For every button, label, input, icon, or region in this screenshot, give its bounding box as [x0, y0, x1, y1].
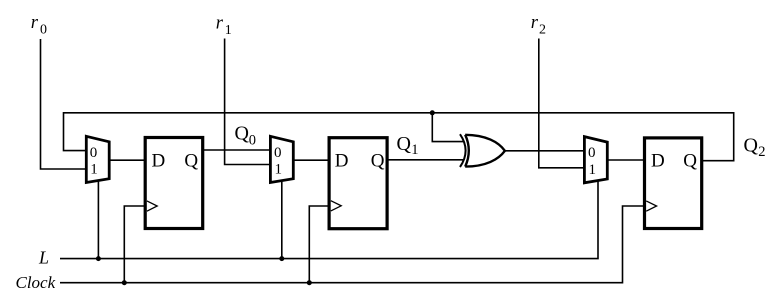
svg-text:1: 1 — [225, 23, 232, 38]
svg-text:D: D — [651, 150, 665, 171]
svg-text:Q: Q — [184, 150, 198, 171]
svg-text:r: r — [31, 13, 39, 33]
svg-text:0: 0 — [40, 22, 47, 37]
svg-text:0: 0 — [588, 145, 596, 161]
svg-text:Q: Q — [371, 150, 385, 171]
svg-text:Q: Q — [683, 150, 697, 171]
svg-text:Q: Q — [397, 133, 412, 155]
svg-text:r: r — [531, 13, 539, 33]
svg-text:0: 0 — [274, 145, 282, 161]
svg-text:1: 1 — [589, 162, 597, 178]
svg-text:D: D — [152, 150, 166, 171]
svg-text:1: 1 — [411, 142, 418, 158]
svg-text:1: 1 — [275, 162, 283, 178]
svg-text:2: 2 — [758, 144, 765, 160]
svg-text:2: 2 — [539, 22, 546, 37]
svg-text:L: L — [38, 248, 49, 268]
svg-text:Q: Q — [744, 135, 759, 157]
svg-text:0: 0 — [249, 133, 256, 149]
svg-text:r: r — [216, 13, 224, 33]
svg-text:0: 0 — [90, 145, 98, 161]
svg-text:1: 1 — [90, 162, 98, 178]
svg-text:D: D — [335, 150, 349, 171]
svg-text:Clock: Clock — [16, 273, 56, 292]
svg-text:Q: Q — [235, 123, 250, 145]
